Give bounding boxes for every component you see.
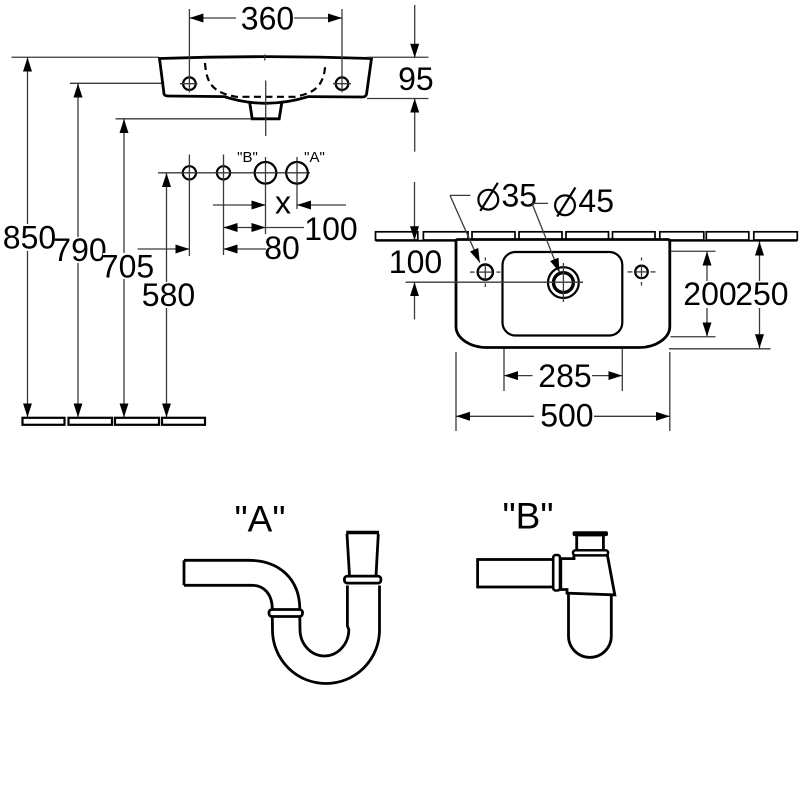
extension line 580 / hole row centerline xyxy=(158,172,310,174)
dimension line 705 xyxy=(123,119,125,417)
washbasin top view outline xyxy=(456,240,670,348)
dimension 285 xyxy=(503,349,505,392)
label Ø45 xyxy=(555,195,575,215)
svg-text:35: 35 xyxy=(502,178,538,214)
svg-text:580: 580 xyxy=(142,277,195,313)
svg-text:790: 790 xyxy=(53,232,106,268)
inner bowl dashed xyxy=(205,63,326,97)
svg-text:500: 500 xyxy=(540,397,593,433)
dimension 250 xyxy=(669,348,771,350)
extension line 790 xyxy=(70,82,181,84)
leader Ø45 xyxy=(532,202,548,204)
drain horizontal centerline xyxy=(544,281,583,283)
hole row vertical centerlines xyxy=(188,155,190,257)
front view centerline xyxy=(265,81,267,137)
trap B flange xyxy=(573,550,608,555)
dimension x xyxy=(213,204,266,206)
360 extension line right (through right mounting hole) xyxy=(341,9,343,91)
wall tiles (top view) xyxy=(376,232,798,240)
100 extension line to drain center xyxy=(406,281,583,283)
trap A coupling ring right xyxy=(344,576,381,583)
dimension line 850 xyxy=(27,58,29,418)
svg-text:285: 285 xyxy=(538,358,591,394)
svg-text:x: x xyxy=(275,185,291,221)
trap B inlet pipe xyxy=(577,535,604,551)
label 705 xyxy=(103,253,152,279)
trap B coupling nut xyxy=(553,555,560,591)
trap A coupling ring left xyxy=(269,610,303,617)
drain inner circle xyxy=(554,273,574,293)
svg-text:360: 360 xyxy=(241,1,294,37)
drain outer circle xyxy=(548,267,579,298)
hole row circle 2 xyxy=(217,166,230,179)
svg-text:80: 80 xyxy=(264,230,300,266)
svg-text:200: 200 xyxy=(683,276,736,312)
trap A inlet end xyxy=(183,560,186,585)
trap A body xyxy=(184,533,381,684)
svg-text:95: 95 xyxy=(398,61,434,97)
wall face line (top view) xyxy=(376,240,798,242)
leader Ø35 xyxy=(450,194,470,196)
dimension line 790 xyxy=(77,84,79,418)
dimension 200 xyxy=(671,250,716,252)
label 850 xyxy=(4,224,55,251)
inner basin top view xyxy=(503,252,623,336)
trap A top pipe xyxy=(347,534,378,576)
trap B xyxy=(478,531,615,657)
hole row circle A xyxy=(286,162,308,184)
front top center tick xyxy=(264,55,266,61)
dimension 95 xyxy=(367,56,428,58)
dimension 100 (hole spacing) xyxy=(224,227,266,229)
svg-text:100: 100 xyxy=(389,244,442,280)
drain spigot front view xyxy=(250,103,282,119)
svg-text:"B": "B" xyxy=(237,149,258,166)
phantom tap hole right xyxy=(635,266,648,279)
svg-text:"B": "B" xyxy=(503,496,554,537)
svg-text:250: 250 xyxy=(735,276,788,312)
svg-text:"A": "A" xyxy=(304,149,325,166)
drain vertical centerline xyxy=(562,263,564,302)
dimension 360 xyxy=(189,17,236,19)
dimension 500 xyxy=(455,352,457,431)
trap B horizontal pipe xyxy=(478,560,554,588)
floor tiles xyxy=(23,418,206,425)
mounting hole left xyxy=(183,77,196,90)
trap B cup xyxy=(569,595,612,658)
extension line 850 xyxy=(12,56,160,58)
svg-text:100: 100 xyxy=(304,211,357,247)
tap hole top view (Ø35) xyxy=(478,265,493,280)
svg-text:45: 45 xyxy=(578,183,614,219)
trap A outer boundary xyxy=(184,560,349,656)
360 extension line left (through left mounting hole) xyxy=(188,9,190,91)
label Ø35 xyxy=(478,190,498,210)
hole row circle B xyxy=(255,162,277,184)
washbasin front view outline xyxy=(160,57,372,104)
label 580 xyxy=(143,282,194,308)
svg-text:"A": "A" xyxy=(235,499,286,540)
mounting hole right xyxy=(336,77,349,90)
trap B body xyxy=(561,555,615,595)
label 790 xyxy=(55,237,105,263)
dimension 100 (top view) xyxy=(414,182,416,240)
dimension line 580 xyxy=(166,173,168,417)
extension line 705 xyxy=(116,118,253,120)
trap B inlet rim xyxy=(573,531,608,536)
svg-text:850: 850 xyxy=(3,220,56,256)
trap A inner boundary xyxy=(184,585,380,683)
labels 200 250 xyxy=(684,281,736,308)
hole row circle 1 xyxy=(183,166,196,179)
dimension 80 xyxy=(138,248,190,250)
